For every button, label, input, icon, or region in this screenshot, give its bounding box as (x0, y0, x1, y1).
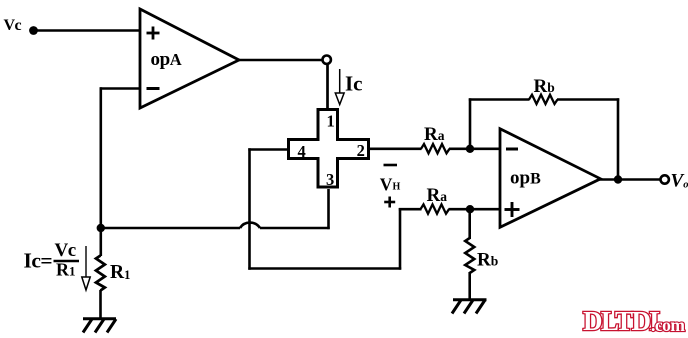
svg-text:Rb: Rb (534, 76, 555, 97)
Hall element cross body (289, 110, 369, 188)
svg-text:Vc: Vc (4, 17, 22, 34)
wire opB output (599, 178, 661, 181)
svg-text:3: 3 (326, 170, 334, 189)
svg-text:R1: R1 (110, 262, 130, 283)
wire opA output (238, 59, 322, 62)
wire horizontal from R1 junction (left part) (101, 227, 240, 230)
svg-text:1: 1 (327, 112, 335, 131)
current arrow Ic through R1 (82, 246, 90, 290)
wire riser up to plus input line (399, 208, 402, 270)
resistor R1 (96, 256, 105, 291)
wire opA feedback down-left vertical (100, 87, 103, 229)
resistor Rb (lower, to ground) (465, 238, 474, 273)
wire junction down to resistor R1 (100, 228, 103, 256)
wire opA inverting input (100, 87, 141, 90)
svg-text:VH: VH (380, 174, 401, 194)
wire R1 to ground (99, 290, 102, 319)
wire Ra lower to opB non-inverting input (449, 208, 502, 211)
op-amp opA body (140, 9, 239, 108)
label formula Ic=Vc/R1 (24, 240, 80, 280)
resistor Ra (lower) (421, 204, 450, 213)
opB inverting input marker - (506, 148, 518, 151)
opA non-inverting input marker + (147, 27, 160, 40)
svg-text:Vo: Vo (671, 171, 688, 192)
wire bottom horizontal to riser (248, 267, 401, 270)
current arrow Ic (335, 69, 344, 105)
wire feedback horizontal to Rb (469, 98, 530, 101)
svg-text:2: 2 (357, 141, 365, 160)
svg-text:Ra: Ra (424, 124, 445, 145)
wire riser to resistor Ra lower (399, 208, 422, 211)
opA inverting input marker - (147, 87, 160, 90)
node junction dot upper (feedback tap) (466, 145, 474, 153)
wire pin 4 vertical down (248, 148, 251, 269)
svg-text:Ic: Ic (345, 72, 363, 96)
svg-text:Ra: Ra (427, 185, 448, 206)
resistor Ra (upper) (421, 144, 450, 153)
wire Vc terminal to opA non-inverting input (36, 29, 141, 32)
svg-text:.com: .com (651, 315, 685, 335)
node junction dot at output (614, 175, 622, 183)
wire crossover hop over vertical wire (240, 223, 260, 228)
label VH minus polarity (384, 164, 398, 167)
wire Hall pin 3 down (327, 189, 330, 229)
ground (right) (452, 300, 487, 314)
svg-text:opA: opA (151, 49, 182, 70)
node opA output open terminal (323, 56, 331, 64)
svg-text:Rb: Rb (477, 250, 498, 271)
logo DLTDL.com (583, 306, 685, 336)
node Vc input terminal (29, 26, 38, 35)
wire output node down to Hall element pin 1 (326, 64, 329, 109)
wire horizontal from hop to pin 3 wire (260, 227, 330, 230)
svg-text:R1: R1 (56, 260, 76, 280)
svg-text:4: 4 (298, 142, 306, 161)
opB non-inverting input marker + (505, 202, 520, 217)
wire Ra upper to opB inverting input (449, 148, 501, 151)
wire Hall pin 2 to resistor Ra upper (368, 148, 422, 151)
resistor Rb (feedback) (529, 95, 558, 104)
wire junction down to Rb lower (468, 209, 471, 239)
svg-text:Ic=: Ic= (24, 249, 53, 273)
wire feedback vertical up (469, 98, 472, 149)
wire feedback right vertical down to output (617, 98, 620, 180)
node junction dot at R1 top (97, 224, 105, 232)
ground (left) (83, 319, 116, 333)
op-amp opB body (500, 129, 601, 228)
wire Rb lower to ground (468, 272, 471, 300)
node output open terminal (661, 175, 669, 183)
wire Hall pin 4 to left (248, 148, 288, 151)
label VH plus polarity (384, 197, 395, 208)
svg-text:Vc: Vc (55, 240, 76, 261)
node junction dot lower (Rb tap) (466, 205, 474, 213)
wire Rb to right vertical (557, 98, 619, 101)
svg-text:opB: opB (510, 168, 541, 189)
